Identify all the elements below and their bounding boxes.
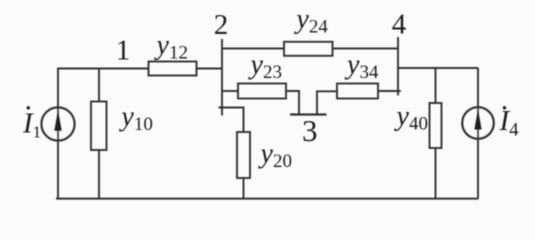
wire: node 4 to right branches [398, 67, 478, 69]
svg-text:1: 1 [116, 34, 131, 66]
node 4 vertical bus [397, 37, 399, 96]
wire: y23 left lead from node 2 [222, 90, 238, 92]
resistor y23 [238, 84, 286, 99]
resistor y12 [149, 62, 197, 76]
resistor y20 [237, 132, 250, 178]
node 3 bar [290, 113, 327, 115]
wire: İ4 branch upper vertical [477, 68, 479, 107]
current source I4 [462, 107, 494, 139]
wire: y34 right lead to node 4 [378, 90, 401, 92]
node 2 vertical bus [221, 39, 223, 116]
wire: ground rail (node 0) [56, 198, 478, 200]
wire: node 3 up to y34 [317, 91, 337, 114]
current source I1 [41, 107, 74, 140]
wire: y12 right lead to node 2 [197, 68, 223, 70]
wire: y20 bottom lead to ground rail [243, 178, 245, 199]
resistor y10 [91, 102, 107, 151]
resistor y40 [430, 103, 442, 148]
wire: y10 top lead [98, 69, 100, 102]
wire: y10 bottom lead [98, 150, 100, 199]
wire: y40 bottom lead [435, 148, 437, 199]
value label İ4 [499, 105, 520, 140]
value label İ1 [22, 106, 41, 141]
wire: y40 top lead [435, 68, 437, 103]
wire: İ1 branch upper vertical [57, 68, 59, 108]
svg-text:3: 3 [302, 113, 318, 148]
svg-text:2: 2 [214, 9, 229, 41]
wire: İ4 branch lower vertical [477, 139, 479, 199]
wire: y24 left lead from node 2 [222, 48, 284, 50]
wire: node-1 top horizontal (İ1 corner to y12) [57, 68, 148, 70]
wire: y20 lead from node 2 [219, 108, 244, 133]
resistor y24 [284, 42, 333, 56]
resistor y34 [337, 84, 378, 99]
wire: y24 right lead to node 4 [333, 48, 399, 50]
wire: y23 right lead down to node 3 [286, 91, 299, 115]
wire: İ1 branch vertical below source [57, 141, 59, 199]
svg-text:4: 4 [392, 8, 407, 40]
